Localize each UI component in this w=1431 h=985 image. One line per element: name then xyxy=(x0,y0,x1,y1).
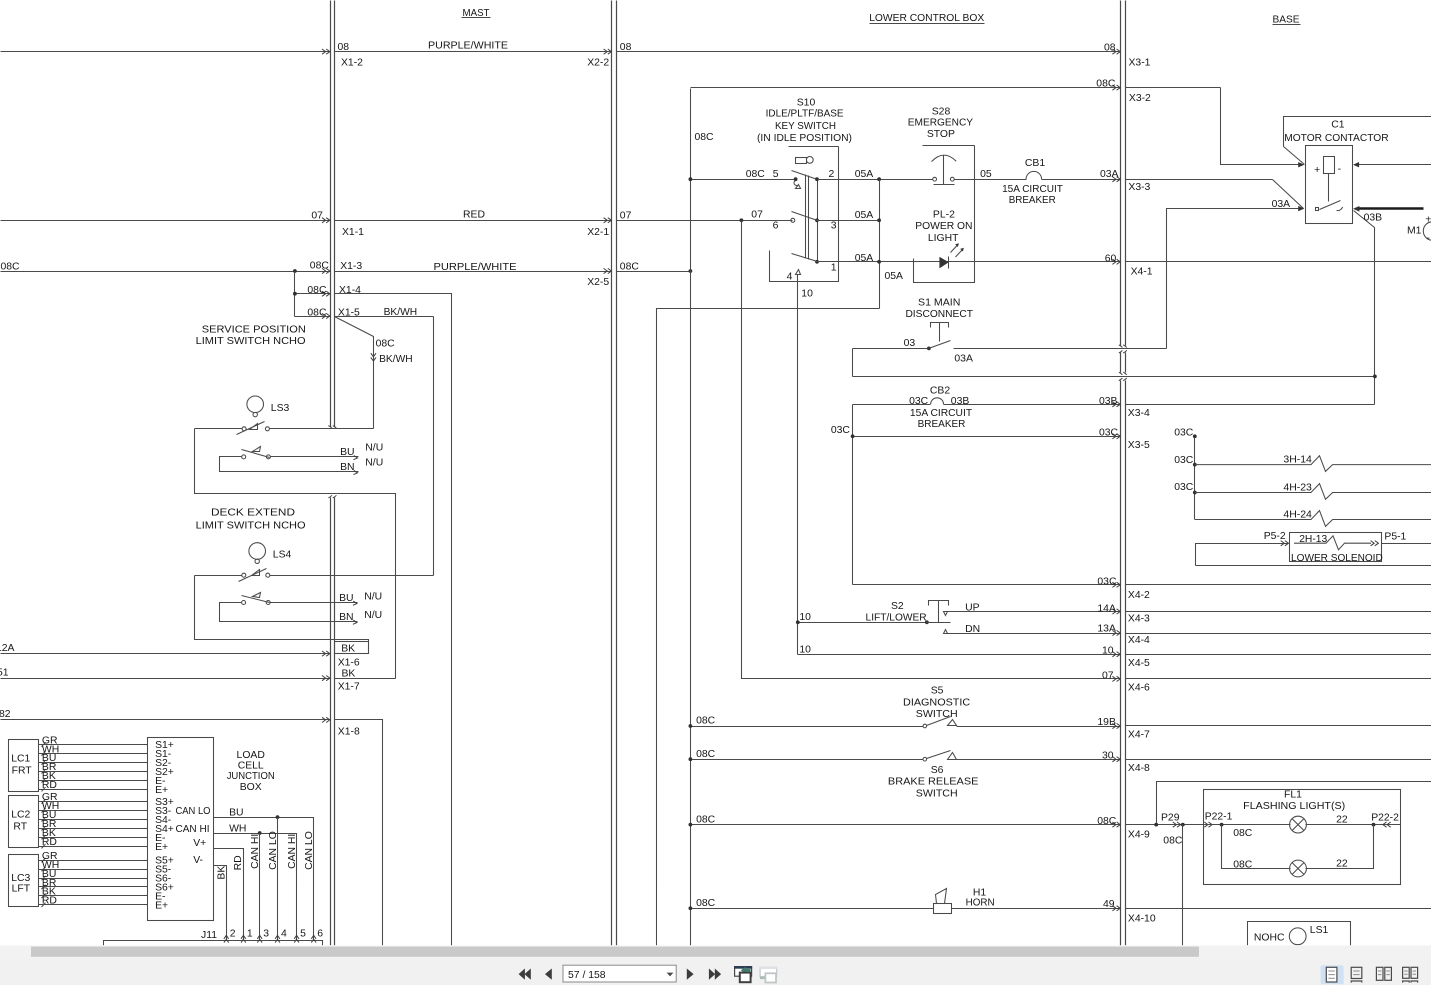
svg-text:4: 4 xyxy=(281,929,287,940)
limit switch LS1 box xyxy=(1248,922,1351,946)
svg-text:X4-7: X4-7 xyxy=(1128,729,1150,740)
toolbar background xyxy=(0,958,1431,985)
switch S6 xyxy=(923,757,927,761)
svg-text:X4-3: X4-3 xyxy=(1128,613,1150,624)
svg-text:S2: S2 xyxy=(891,601,904,612)
button previous page xyxy=(545,969,552,980)
label BK box xyxy=(335,642,369,654)
bus X2 xyxy=(611,1,613,946)
wire 05A net drop to S1 loop xyxy=(657,309,880,946)
S1 contact xyxy=(927,347,931,351)
wire P5-1 row right xyxy=(1382,543,1431,545)
wire X4-8 right xyxy=(1126,759,1431,761)
wire 03C row into CB2 xyxy=(853,404,931,406)
svg-text:RED: RED xyxy=(463,209,485,220)
load cell LC3 box xyxy=(9,855,39,907)
junction 08C vertical xyxy=(689,269,693,273)
svg-text:RD: RD xyxy=(233,855,244,870)
wire X4-3 right xyxy=(1126,611,1431,613)
wire X4-9 to P29/FL1 xyxy=(1126,824,1204,826)
svg-text:JUNCTION: JUNCTION xyxy=(227,771,275,782)
wire 08C to X1-4 xyxy=(295,293,331,295)
wire X4-7 right xyxy=(1126,725,1431,727)
svg-text:3H-14: 3H-14 xyxy=(1283,455,1312,466)
svg-text:08C: 08C xyxy=(695,132,715,143)
wire aux row up xyxy=(1157,782,1431,825)
wire RED mast section xyxy=(335,220,612,222)
svg-text:X4-1: X4-1 xyxy=(1131,267,1153,278)
svg-text:P22-1: P22-1 xyxy=(1205,812,1233,823)
svg-text:LS4: LS4 xyxy=(273,549,292,560)
S10 key glyph xyxy=(796,158,807,164)
svg-text:08C: 08C xyxy=(696,815,716,826)
svg-text:DISCONNECT: DISCONNECT xyxy=(905,309,973,320)
wire 30 to X4-8 xyxy=(957,759,1121,761)
svg-text:HORN: HORN xyxy=(966,898,995,909)
svg-text:05A: 05A xyxy=(855,253,874,264)
wire BU (CAN LO bus) xyxy=(214,818,314,941)
wire LC1 WH xyxy=(39,753,148,755)
load cell LC2 box xyxy=(9,796,39,848)
wire 03A from X3-3 xyxy=(1126,179,1273,181)
wire X3-2 net to C1 coil + xyxy=(1126,87,1221,89)
svg-text:RD: RD xyxy=(42,780,57,791)
LS4 second pole lever xyxy=(242,596,270,603)
wire X1-5 diagonal to LS3 drop xyxy=(335,317,374,429)
svg-text:15A CIRCUIT: 15A CIRCUIT xyxy=(910,408,973,419)
svg-text:X1-3: X1-3 xyxy=(340,261,362,272)
svg-text:22: 22 xyxy=(1336,815,1348,826)
wire CAN LO drop pin4 xyxy=(277,818,279,941)
svg-text:P22-2: P22-2 xyxy=(1371,813,1399,824)
svg-text:E+: E+ xyxy=(155,842,168,853)
svg-text:6: 6 xyxy=(773,220,779,231)
wire 08C top to X3-2 xyxy=(691,87,1121,89)
bus X3/X4 (base connector) segment 1 xyxy=(1120,1,1122,346)
svg-text:CB1: CB1 xyxy=(1025,158,1045,169)
wire X4-4 right xyxy=(1126,633,1431,635)
svg-text:E+: E+ xyxy=(155,785,168,796)
bus X3/X4 segment 2 xyxy=(1120,353,1122,373)
wire LC2 BK xyxy=(39,837,148,839)
svg-text:X4-10: X4-10 xyxy=(1128,913,1156,924)
wire BK/WH drop xyxy=(433,317,435,576)
svg-text:BOX: BOX xyxy=(240,782,262,793)
wire 51 to X1-7 xyxy=(1,678,331,680)
wire C1 coil - out xyxy=(1357,164,1431,166)
limit switch LS4 roller xyxy=(249,543,266,560)
svg-text:BREAKER: BREAKER xyxy=(918,419,966,430)
wire V- to BK xyxy=(214,866,227,941)
wire 03B loop to S1 xyxy=(852,349,854,377)
svg-text:IDLE/PLTF/BASE: IDLE/PLTF/BASE xyxy=(766,109,844,120)
wire 10 from pin 4 xyxy=(797,275,799,655)
svg-text:BK/WH: BK/WH xyxy=(379,354,413,365)
horn H1 xyxy=(934,904,952,914)
svg-text:08C: 08C xyxy=(696,898,716,909)
arrow down on LS3 drop xyxy=(371,353,376,361)
svg-text:08C: 08C xyxy=(307,307,327,318)
load cell junction box xyxy=(148,738,214,921)
wire 08C to control box xyxy=(617,271,691,273)
svg-text:RT: RT xyxy=(13,821,27,832)
LS3 lever xyxy=(237,422,265,435)
wire X1-5 BK/WH to deck switch xyxy=(335,316,434,318)
svg-text:08C: 08C xyxy=(1096,79,1116,90)
page number box xyxy=(563,965,676,982)
svg-text:LFT: LFT xyxy=(12,883,31,894)
wire X4-6 right xyxy=(1126,678,1431,680)
svg-text:FLASHING LIGHT(S): FLASHING LIGHT(S) xyxy=(1243,801,1345,812)
svg-text:CAN LO: CAN LO xyxy=(176,806,211,817)
svg-text:03C: 03C xyxy=(1097,576,1117,587)
svg-text:12A: 12A xyxy=(0,643,15,654)
svg-text:FRT: FRT xyxy=(12,765,33,776)
view icon two page scroll xyxy=(1403,967,1418,982)
svg-text:LIGHT: LIGHT xyxy=(928,233,959,244)
svg-text:5: 5 xyxy=(773,169,779,180)
wire 4H-24 xyxy=(1195,511,1431,527)
svg-text:5: 5 xyxy=(300,929,306,940)
svg-text:03C: 03C xyxy=(1174,428,1194,439)
wire 03 into S1 xyxy=(853,348,929,350)
wire LC1 GR xyxy=(39,744,148,746)
svg-text:CELL: CELL xyxy=(238,760,264,771)
wire LS4 output loop to X1-6 xyxy=(195,576,369,654)
LS4 pole jumper xyxy=(220,603,341,622)
svg-text:BN: BN xyxy=(340,462,354,473)
wire 08 left of X1 xyxy=(1,51,331,53)
wire X4-2 row right of bus xyxy=(1126,584,1431,586)
svg-text:V-: V- xyxy=(193,855,203,866)
svg-text:C1: C1 xyxy=(1331,120,1345,131)
S10 contact B (pins 6-3) xyxy=(791,218,795,222)
svg-text:07: 07 xyxy=(311,211,323,222)
svg-text:13A: 13A xyxy=(1097,624,1116,635)
svg-text:3: 3 xyxy=(831,220,837,231)
load cell LC1 box xyxy=(9,740,39,792)
wire LC2 BR xyxy=(39,828,148,830)
bus X1 (mast connector) upper segment xyxy=(330,1,332,427)
svg-text:E+: E+ xyxy=(155,900,168,911)
svg-text:POWER ON: POWER ON xyxy=(915,221,972,232)
svg-text:X3-2: X3-2 xyxy=(1129,93,1151,104)
svg-text:S10: S10 xyxy=(797,97,816,108)
svg-text:S1 MAIN: S1 MAIN xyxy=(918,298,960,309)
svg-text:07: 07 xyxy=(751,209,763,220)
wire LC3 BU xyxy=(39,878,148,880)
wire M1 feed (heavy) xyxy=(1358,207,1424,210)
svg-text:FL1: FL1 xyxy=(1284,790,1302,801)
wire 19B to X4-7 xyxy=(957,726,1121,728)
svg-text:DN: DN xyxy=(965,624,980,635)
C1 coil xyxy=(1324,157,1335,174)
lamp FL1-b xyxy=(1290,860,1307,877)
svg-text:08C: 08C xyxy=(1097,816,1117,827)
button first page xyxy=(525,969,531,980)
svg-text:14A: 14A xyxy=(1097,603,1116,614)
svg-text:57 / 158: 57 / 158 xyxy=(568,970,606,981)
svg-text:-: - xyxy=(1426,233,1429,244)
svg-text:BU: BU xyxy=(339,593,353,604)
svg-text:X1-4: X1-4 xyxy=(339,285,361,296)
svg-text:SERVICE POSITION: SERVICE POSITION xyxy=(202,324,306,335)
wire PURPLE/WHITE mast section 2 xyxy=(335,271,612,273)
svg-text:DECK EXTEND: DECK EXTEND xyxy=(211,507,295,518)
junction X1-4 feed xyxy=(293,292,297,296)
wire 08C to X1-5 xyxy=(295,316,331,318)
svg-text:NOHC: NOHC xyxy=(1254,933,1285,944)
svg-text:4H-23: 4H-23 xyxy=(1283,482,1312,493)
svg-text:08C: 08C xyxy=(310,260,330,271)
wire 60 X4-1 row right xyxy=(1126,261,1431,263)
svg-text:N/U: N/U xyxy=(364,610,382,621)
wire 03A to X3-3 xyxy=(1042,179,1121,181)
wire 07 left of X1 xyxy=(1,220,331,222)
contactor C1 box xyxy=(1306,146,1353,224)
wire WH (CAN HI bus) xyxy=(214,834,297,941)
wire LC1 RD xyxy=(39,789,148,791)
svg-text:X2-5: X2-5 xyxy=(587,277,609,288)
svg-text:LOWER SOLENOID: LOWER SOLENOID xyxy=(1291,553,1383,564)
svg-text:LIFT/LOWER: LIFT/LOWER xyxy=(866,612,928,623)
wire LS3 output loop to X1-7 xyxy=(195,429,396,679)
svg-text:N/U: N/U xyxy=(364,591,382,602)
svg-text:19B: 19B xyxy=(1097,717,1116,728)
svg-text:RD: RD xyxy=(42,896,57,907)
wire 05 to CB1 xyxy=(955,179,1027,181)
svg-text:CB2: CB2 xyxy=(930,386,950,397)
wire lamp b return xyxy=(1306,825,1374,869)
S28 contacts xyxy=(933,177,937,181)
svg-text:STOP: STOP xyxy=(927,129,955,140)
svg-text:03B: 03B xyxy=(1364,213,1383,224)
svg-text:N/U: N/U xyxy=(365,457,383,468)
S2 DN contact xyxy=(944,630,948,634)
svg-text:03A: 03A xyxy=(954,354,973,365)
svg-text:03C: 03C xyxy=(1099,428,1119,439)
svg-text:BK: BK xyxy=(217,866,228,880)
svg-text:X3-4: X3-4 xyxy=(1128,408,1150,419)
svg-text:22: 22 xyxy=(1336,859,1348,870)
svg-text:LC1: LC1 xyxy=(11,754,30,765)
wire 10 branch to S2 xyxy=(798,622,927,624)
svg-text:15A CIRCUIT: 15A CIRCUIT xyxy=(1002,184,1063,195)
junction on 08C row for X1-4/X1-5 feed xyxy=(293,269,297,273)
svg-text:05A: 05A xyxy=(885,271,904,282)
svg-text:UP: UP xyxy=(965,602,980,613)
svg-text:08C: 08C xyxy=(1233,828,1253,839)
connector J11 xyxy=(104,941,323,946)
wire 03C branch vertical xyxy=(1194,437,1196,520)
wire 07 to X4-6 xyxy=(742,221,1121,679)
S10 contact A (pins 5-2) xyxy=(794,177,798,181)
svg-text:2: 2 xyxy=(829,169,835,180)
svg-text:CAN LO: CAN LO xyxy=(304,831,315,870)
svg-text:4H-24: 4H-24 xyxy=(1283,509,1312,520)
wire BN N/U (LS4) xyxy=(341,621,358,623)
switch S10 box xyxy=(789,146,839,148)
wire 82 to X1-8 xyxy=(1,719,331,721)
svg-text:03B: 03B xyxy=(951,396,970,407)
wire 08 control box section xyxy=(617,51,1121,53)
wire 05A pin2 row to e-stop xyxy=(818,179,933,181)
wire 08C left of X1 xyxy=(1,271,331,273)
wire LC3 RD xyxy=(39,904,148,906)
wire FL1 lower branch xyxy=(1222,825,1291,869)
svg-text:X3-5: X3-5 xyxy=(1128,440,1150,451)
svg-text:X1-8: X1-8 xyxy=(338,727,360,738)
scrollbar track xyxy=(0,945,1431,957)
svg-text:X4-8: X4-8 xyxy=(1128,763,1150,774)
svg-text:03B: 03B xyxy=(1099,396,1118,407)
wire X4-5 right xyxy=(1126,654,1431,656)
svg-text:X4-5: X4-5 xyxy=(1128,658,1150,669)
S10 contact C (pin 1) xyxy=(792,254,818,262)
svg-text:X4-4: X4-4 xyxy=(1128,635,1150,646)
button last page xyxy=(709,969,715,980)
junction down feed xyxy=(1181,823,1185,827)
wire down from X4-9 row xyxy=(1182,825,1184,946)
svg-text:X3-3: X3-3 xyxy=(1128,182,1150,193)
svg-text:LIMIT SWITCH NCHO: LIMIT SWITCH NCHO xyxy=(196,336,306,347)
wire 03C to X4-2 xyxy=(853,584,1121,586)
svg-text:82: 82 xyxy=(0,709,11,720)
wire 10 to X4-5 xyxy=(798,654,1121,656)
svg-text:N/U: N/U xyxy=(365,442,383,453)
svg-text:05: 05 xyxy=(980,169,992,180)
button next view (disabled) xyxy=(760,967,777,976)
wire PURPLE/WHITE mast section xyxy=(335,51,612,53)
C1 contact xyxy=(1316,208,1319,211)
svg-text:X4-6: X4-6 xyxy=(1128,682,1150,693)
limit switch LS3 roller xyxy=(247,396,264,413)
wire 07 to key switch pin 6 xyxy=(617,220,793,222)
wire 03C X3-5 row xyxy=(853,436,1121,438)
wire 49 to X4-10 xyxy=(952,908,1121,910)
svg-text:03C: 03C xyxy=(1174,482,1194,493)
wire LC1 BU xyxy=(39,762,148,764)
wire 05A pin3 row xyxy=(818,220,880,222)
svg-text:X2-2: X2-2 xyxy=(587,57,609,68)
wire 03B to X3-4 xyxy=(944,404,1121,406)
svg-text:(IN IDLE POSITION): (IN IDLE POSITION) xyxy=(757,133,852,144)
wire 08C to S5 xyxy=(691,726,924,728)
S10 pin 4 terminal xyxy=(796,270,801,275)
bus X3/X4 segment 3 xyxy=(1120,381,1122,946)
svg-text:X1-6: X1-6 xyxy=(338,657,360,668)
wire BN N/U (LS3) xyxy=(341,471,359,473)
svg-text:LOWER CONTROL BOX: LOWER CONTROL BOX xyxy=(869,13,984,24)
wire 4H-23 xyxy=(1193,491,1197,495)
svg-text:08C: 08C xyxy=(620,261,640,272)
wire lamp a to P22-2 xyxy=(1306,824,1401,826)
wire 14A UP to X4-3 xyxy=(948,611,1121,613)
svg-text:2H-13: 2H-13 xyxy=(1299,534,1327,545)
contactor C1 callout box xyxy=(1284,117,1431,147)
svg-text:P5-1: P5-1 xyxy=(1384,532,1406,543)
wire solenoid return row xyxy=(1196,565,1431,567)
wire CAN HI drop pin3 xyxy=(259,834,261,941)
svg-text:BU: BU xyxy=(229,807,243,818)
svg-text:03A: 03A xyxy=(1272,199,1291,210)
emergency stop S28 box xyxy=(923,145,975,147)
LS4 lever xyxy=(239,569,267,582)
wire 08C net vertical (control box feed) xyxy=(690,89,692,946)
svg-text:60: 60 xyxy=(1105,254,1117,265)
motor M1 xyxy=(1423,222,1431,241)
svg-text:X1-7: X1-7 xyxy=(338,682,360,693)
wire 03B from C1 xyxy=(1354,211,1375,405)
view icon two pages xyxy=(1376,967,1391,980)
svg-text:-: - xyxy=(1338,164,1341,175)
svg-text:MOTOR CONTACTOR: MOTOR CONTACTOR xyxy=(1284,133,1389,144)
svg-text:1: 1 xyxy=(831,262,837,273)
switch S5 xyxy=(923,724,927,728)
wire 2H-13 inside solenoid box xyxy=(1294,536,1371,550)
svg-text:S6: S6 xyxy=(931,765,944,776)
svg-text:X2-1: X2-1 xyxy=(587,227,609,238)
flashing lights FL1 box xyxy=(1204,790,1401,885)
wire into FL1 xyxy=(1204,822,1212,827)
svg-text:X1-2: X1-2 xyxy=(341,57,363,68)
circuit breaker CB1 xyxy=(1026,171,1042,179)
svg-text:BREAKER: BREAKER xyxy=(1009,195,1056,206)
LS4 common wire xyxy=(195,575,242,577)
svg-text:+: + xyxy=(1314,165,1320,176)
wire LC2 WH xyxy=(39,810,148,812)
lower solenoid box xyxy=(1290,533,1382,562)
wire 08C to X4-9 xyxy=(691,824,1121,826)
wire vertical 08C branch xyxy=(294,272,296,317)
wire 03A riser to contactor xyxy=(1167,209,1300,349)
wire LC2 GR xyxy=(39,801,148,803)
svg-text:2: 2 xyxy=(230,929,236,940)
wire X1-4 feed to base (down right side) xyxy=(335,294,452,946)
svg-text:08C: 08C xyxy=(1163,835,1183,846)
junction 07 / X4-6 drop xyxy=(740,218,744,222)
S28 mushroom head symbol xyxy=(932,155,957,161)
svg-text:03C: 03C xyxy=(1174,455,1194,466)
svg-text:08C: 08C xyxy=(696,715,716,726)
svg-text:V+: V+ xyxy=(193,838,206,849)
svg-text:49: 49 xyxy=(1103,899,1115,910)
svg-text:08C: 08C xyxy=(746,169,766,180)
svg-text:LC2: LC2 xyxy=(11,810,30,821)
wire CB2 input vertical xyxy=(852,405,854,585)
svg-text:1: 1 xyxy=(247,929,253,940)
wire X1-7 right side to LS3 loop xyxy=(335,678,396,680)
button previous view xyxy=(735,967,752,977)
wire 3H-14 xyxy=(1193,463,1197,467)
svg-text:05A: 05A xyxy=(855,169,874,180)
svg-text:07: 07 xyxy=(620,211,632,222)
svg-text:08C: 08C xyxy=(0,261,20,272)
LS3 second pole lever xyxy=(242,450,270,458)
wire LC2 RD xyxy=(39,846,148,848)
LS3 pole jumper xyxy=(220,457,341,472)
svg-text:10: 10 xyxy=(1102,646,1114,657)
svg-text:03A: 03A xyxy=(1100,169,1119,180)
LS1 circle xyxy=(1289,928,1306,945)
svg-text:08C: 08C xyxy=(696,749,716,760)
svg-text:LS1: LS1 xyxy=(1310,925,1329,936)
svg-text:4: 4 xyxy=(787,272,793,283)
svg-text:CAN HI: CAN HI xyxy=(250,834,261,869)
svg-text:CAN HI: CAN HI xyxy=(287,834,298,869)
svg-text:P5-2: P5-2 xyxy=(1264,531,1286,542)
svg-text:S5: S5 xyxy=(931,686,944,697)
